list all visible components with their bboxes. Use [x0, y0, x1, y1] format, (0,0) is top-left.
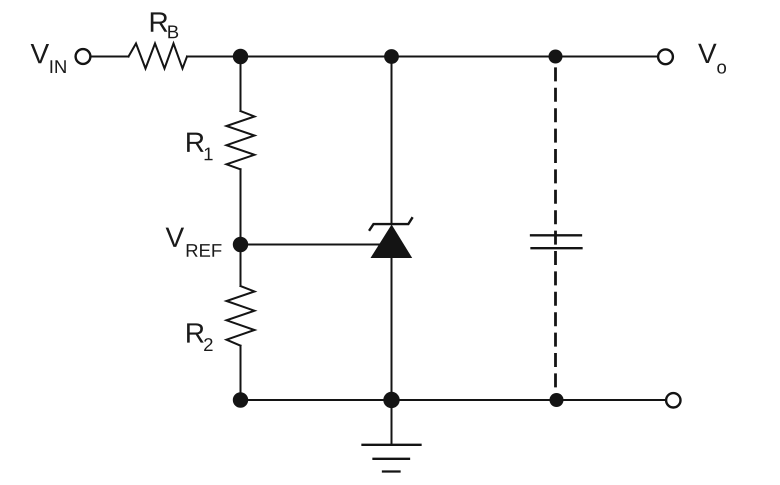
ground bar 3: [383, 470, 400, 472]
resistor R1: [227, 111, 255, 169]
wire VREF node to zener: [248, 244, 388, 246]
wire ground stub: [391, 400, 393, 444]
wire VIN terminal to RB: [91, 56, 129, 58]
node junction bottom-right: [550, 393, 564, 407]
wire dashed capacitor branch: [554, 67, 557, 400]
resistor RB: [129, 44, 188, 69]
label Vo: [698, 44, 726, 74]
node VREF junction: [233, 237, 248, 252]
ground bar 2: [374, 458, 410, 460]
label VREF: [166, 228, 222, 257]
zener diode D1 triangle: [371, 225, 413, 259]
label R1: [187, 133, 212, 161]
capacitor C1 bottom plate: [532, 247, 582, 249]
label RB: [151, 12, 178, 38]
node VIN terminal: [76, 49, 91, 64]
wire R1 to VREF node: [240, 169, 242, 244]
wire R2 to bottom rail: [240, 346, 242, 400]
zener diode D1 cathode bar: [370, 218, 412, 230]
node junction bottom-middle: [383, 392, 399, 408]
bottom rail wire: [241, 399, 667, 401]
label VIN: [31, 44, 66, 73]
wire top junction to R1: [240, 57, 242, 112]
label R2: [187, 323, 212, 351]
wire zener anode to bottom rail: [391, 258, 393, 400]
wire top junction to zener cathode: [391, 57, 393, 225]
wire VREF node to R2: [240, 245, 242, 287]
resistor R2: [227, 286, 255, 346]
capacitor C1 top plate: [531, 234, 581, 236]
node Vo terminal top: [658, 49, 673, 64]
node junction top-left: [233, 49, 248, 64]
node junction top-right: [549, 50, 563, 64]
node Vo terminal bottom: [666, 393, 680, 407]
node junction top-middle: [384, 49, 399, 64]
wire RB to Vo terminal (top rail): [187, 56, 658, 58]
node junction bottom-left: [233, 392, 248, 407]
ground bar 1: [363, 444, 421, 446]
